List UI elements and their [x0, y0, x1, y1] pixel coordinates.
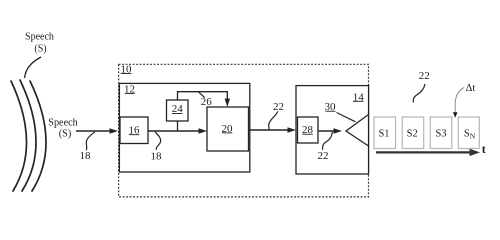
block 20: [207, 107, 249, 151]
dashed box 10: [119, 64, 369, 197]
label 12: [124, 84, 135, 96]
leader 22 to wire 28-switch: [323, 132, 333, 150]
block 12: [119, 83, 249, 172]
wire 20 to 28: [249, 127, 297, 132]
svg-text:S1: S1: [378, 128, 389, 139]
block 16: [120, 117, 148, 144]
label 10: [121, 64, 133, 76]
svg-text:18: 18: [80, 150, 92, 162]
svg-text:t: t: [482, 142, 486, 156]
svg-text:Speech: Speech: [25, 32, 54, 43]
label Speech (S) top: [25, 32, 54, 55]
svg-text:Δt: Δt: [466, 83, 476, 94]
speech sound waves: [11, 80, 46, 191]
svg-text:(S): (S): [59, 129, 71, 140]
leader 22 to segments: [413, 84, 425, 103]
speech input arrow: [76, 128, 118, 133]
block 24: [167, 100, 189, 121]
svg-text:(S): (S): [34, 43, 46, 54]
label 14: [353, 91, 365, 103]
label Speech (S) at input arrow: [48, 118, 77, 140]
leader 18 to main wire: [155, 132, 161, 150]
segment box S1: [374, 117, 396, 149]
wire 28 to switch: [318, 128, 342, 133]
leader 22 to wire: [269, 111, 278, 129]
arrow delta-t to gap: [453, 88, 464, 118]
block 14: [296, 86, 369, 174]
svg-text:Speech: Speech: [48, 118, 77, 129]
svg-text:S2: S2: [407, 128, 418, 139]
segment box S2: [402, 117, 424, 149]
time axis: [376, 149, 480, 156]
feedback wire 24 to 20: [178, 92, 231, 107]
svg-text:18: 18: [151, 150, 163, 162]
svg-text:26: 26: [201, 96, 213, 108]
svg-text:SN: SN: [464, 128, 476, 140]
svg-text:22: 22: [318, 150, 329, 162]
tick 26 to feedback wire: [199, 92, 205, 97]
main wire 16 to 20: [148, 128, 207, 133]
segment box S3: [430, 117, 452, 149]
leader 30 to switch: [337, 113, 356, 122]
svg-text:S3: S3: [435, 128, 446, 139]
switch 30 triangle: [346, 115, 369, 147]
svg-text:22: 22: [273, 101, 284, 113]
block 28: [298, 117, 319, 143]
segment box SN: [458, 117, 479, 149]
label 30: [325, 101, 337, 113]
svg-text:22: 22: [419, 70, 430, 82]
leader from Speech (S) to waves: [25, 57, 42, 78]
stub 24 to main wire: [177, 121, 179, 131]
leader 18 to input arrow: [86, 132, 95, 151]
